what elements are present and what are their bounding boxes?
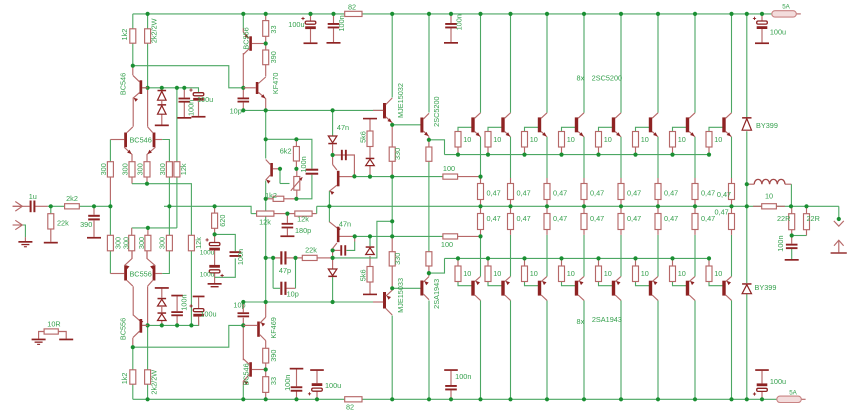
svg-text:2k2/2W: 2k2/2W — [149, 370, 158, 395]
svg-text:300: 300 — [135, 163, 144, 175]
svg-text:0,47: 0,47 — [701, 214, 715, 223]
svg-text:5A: 5A — [789, 390, 797, 397]
svg-text:100u: 100u — [770, 27, 786, 36]
svg-text:10: 10 — [493, 135, 501, 144]
svg-text:0,47: 0,47 — [517, 188, 531, 197]
svg-text:100u: 100u — [200, 309, 216, 318]
svg-text:10: 10 — [714, 269, 722, 278]
svg-text:100n: 100n — [236, 249, 245, 265]
svg-text:12k: 12k — [259, 217, 271, 226]
svg-text:0,47: 0,47 — [590, 214, 604, 223]
svg-text:300: 300 — [120, 163, 129, 175]
svg-text:BY399: BY399 — [755, 283, 777, 292]
svg-text:1k2: 1k2 — [120, 373, 129, 385]
svg-text:12k: 12k — [179, 163, 188, 175]
svg-text:100n: 100n — [776, 235, 785, 251]
svg-text:MJE15032: MJE15032 — [396, 83, 405, 118]
svg-text:10: 10 — [567, 269, 575, 278]
svg-text:10: 10 — [604, 269, 612, 278]
svg-text:100n: 100n — [455, 372, 471, 381]
svg-text:1k2: 1k2 — [265, 191, 277, 200]
svg-text:0,47: 0,47 — [714, 208, 728, 217]
svg-text:KF470: KF470 — [271, 73, 280, 95]
svg-text:100u: 100u — [325, 381, 341, 390]
svg-text:0,47: 0,47 — [487, 214, 501, 223]
svg-text:330: 330 — [393, 253, 402, 265]
svg-text:33: 33 — [269, 25, 278, 33]
svg-text:2SA1943: 2SA1943 — [432, 279, 441, 309]
svg-text:12k: 12k — [194, 237, 203, 249]
svg-text:100: 100 — [441, 240, 453, 249]
svg-text:100u: 100u — [197, 95, 213, 104]
svg-text:10p: 10p — [287, 289, 299, 298]
svg-text:100u: 100u — [770, 377, 786, 386]
svg-text:0,47: 0,47 — [590, 188, 604, 197]
svg-text:47n: 47n — [339, 219, 351, 228]
svg-text:BC546: BC546 — [241, 363, 250, 385]
svg-text:0,47: 0,47 — [553, 214, 567, 223]
svg-text:47n: 47n — [337, 123, 349, 132]
svg-text:82: 82 — [346, 402, 354, 411]
svg-text:1u: 1u — [29, 192, 37, 201]
svg-text:33: 33 — [269, 377, 278, 385]
svg-text:KF469: KF469 — [269, 317, 278, 339]
svg-text:2SA1943: 2SA1943 — [592, 315, 622, 324]
svg-text:0,47: 0,47 — [717, 190, 731, 199]
svg-text:0,47: 0,47 — [553, 188, 567, 197]
svg-text:2SC5200: 2SC5200 — [432, 96, 441, 126]
svg-text:0,47: 0,47 — [487, 188, 501, 197]
svg-text:100n: 100n — [337, 15, 346, 31]
svg-text:0,47: 0,47 — [701, 188, 715, 197]
svg-text:82: 82 — [348, 3, 356, 12]
svg-text:10: 10 — [493, 269, 501, 278]
svg-text:10: 10 — [678, 269, 686, 278]
svg-text:BC556: BC556 — [119, 318, 128, 340]
svg-text:8x: 8x — [577, 74, 585, 83]
svg-text:BC546: BC546 — [119, 73, 128, 95]
svg-text:22R: 22R — [777, 214, 790, 223]
svg-text:300: 300 — [99, 163, 108, 175]
svg-text:100u: 100u — [288, 20, 304, 29]
svg-text:10: 10 — [604, 135, 612, 144]
svg-text:390: 390 — [269, 350, 278, 362]
svg-text:0,47: 0,47 — [664, 214, 678, 223]
svg-text:10: 10 — [567, 135, 575, 144]
svg-text:0,47: 0,47 — [517, 214, 531, 223]
svg-text:22k: 22k — [57, 219, 69, 228]
svg-text:390: 390 — [269, 51, 278, 63]
svg-text:10: 10 — [530, 269, 538, 278]
svg-text:22R: 22R — [807, 214, 820, 223]
svg-text:100n: 100n — [454, 14, 463, 30]
svg-text:5A: 5A — [782, 3, 790, 10]
svg-text:100n: 100n — [187, 100, 196, 116]
svg-text:10: 10 — [678, 135, 686, 144]
svg-text:100n: 100n — [283, 375, 292, 391]
svg-text:22k: 22k — [305, 245, 317, 254]
svg-text:10p: 10p — [230, 107, 242, 116]
svg-text:10: 10 — [641, 135, 649, 144]
svg-text:300: 300 — [121, 237, 130, 249]
svg-text:180p: 180p — [295, 226, 311, 235]
svg-text:1k2: 1k2 — [120, 29, 129, 41]
svg-text:BC556: BC556 — [129, 269, 151, 278]
svg-text:10: 10 — [530, 135, 538, 144]
svg-text:390: 390 — [80, 220, 92, 229]
svg-text:2k2/2W: 2k2/2W — [149, 18, 158, 43]
svg-text:5k6: 5k6 — [359, 269, 368, 281]
svg-text:0,47: 0,47 — [664, 188, 678, 197]
svg-text:10: 10 — [714, 135, 722, 144]
svg-text:10: 10 — [641, 269, 649, 278]
svg-text:300: 300 — [137, 237, 146, 249]
svg-text:300: 300 — [158, 163, 167, 175]
svg-text:100u: 100u — [200, 272, 215, 279]
svg-text:330: 330 — [393, 148, 402, 160]
svg-text:10: 10 — [765, 191, 773, 200]
svg-text:BC556: BC556 — [241, 27, 250, 49]
svg-text:100n: 100n — [180, 294, 189, 310]
svg-text:620: 620 — [218, 215, 227, 227]
svg-text:0,47: 0,47 — [627, 188, 641, 197]
svg-text:0,47: 0,47 — [627, 214, 641, 223]
svg-text:47p: 47p — [279, 266, 291, 275]
svg-text:100: 100 — [443, 164, 455, 173]
svg-text:5k6: 5k6 — [359, 131, 368, 143]
svg-text:8x: 8x — [577, 317, 585, 326]
svg-text:10p: 10p — [233, 301, 245, 310]
svg-text:10: 10 — [463, 269, 471, 278]
svg-text:6k2: 6k2 — [280, 146, 292, 155]
svg-text:MJE15033: MJE15033 — [396, 278, 405, 313]
svg-text:2k2: 2k2 — [66, 194, 78, 203]
svg-text:BY399: BY399 — [756, 121, 778, 130]
svg-text:12k: 12k — [297, 215, 309, 224]
svg-text:100n: 100n — [299, 156, 308, 172]
svg-text:2SC5200: 2SC5200 — [592, 74, 622, 83]
svg-text:BC546: BC546 — [129, 136, 151, 145]
svg-text:300: 300 — [158, 237, 167, 249]
svg-text:10: 10 — [463, 135, 471, 144]
svg-text:10R: 10R — [47, 320, 60, 329]
svg-text:100u: 100u — [200, 249, 215, 256]
